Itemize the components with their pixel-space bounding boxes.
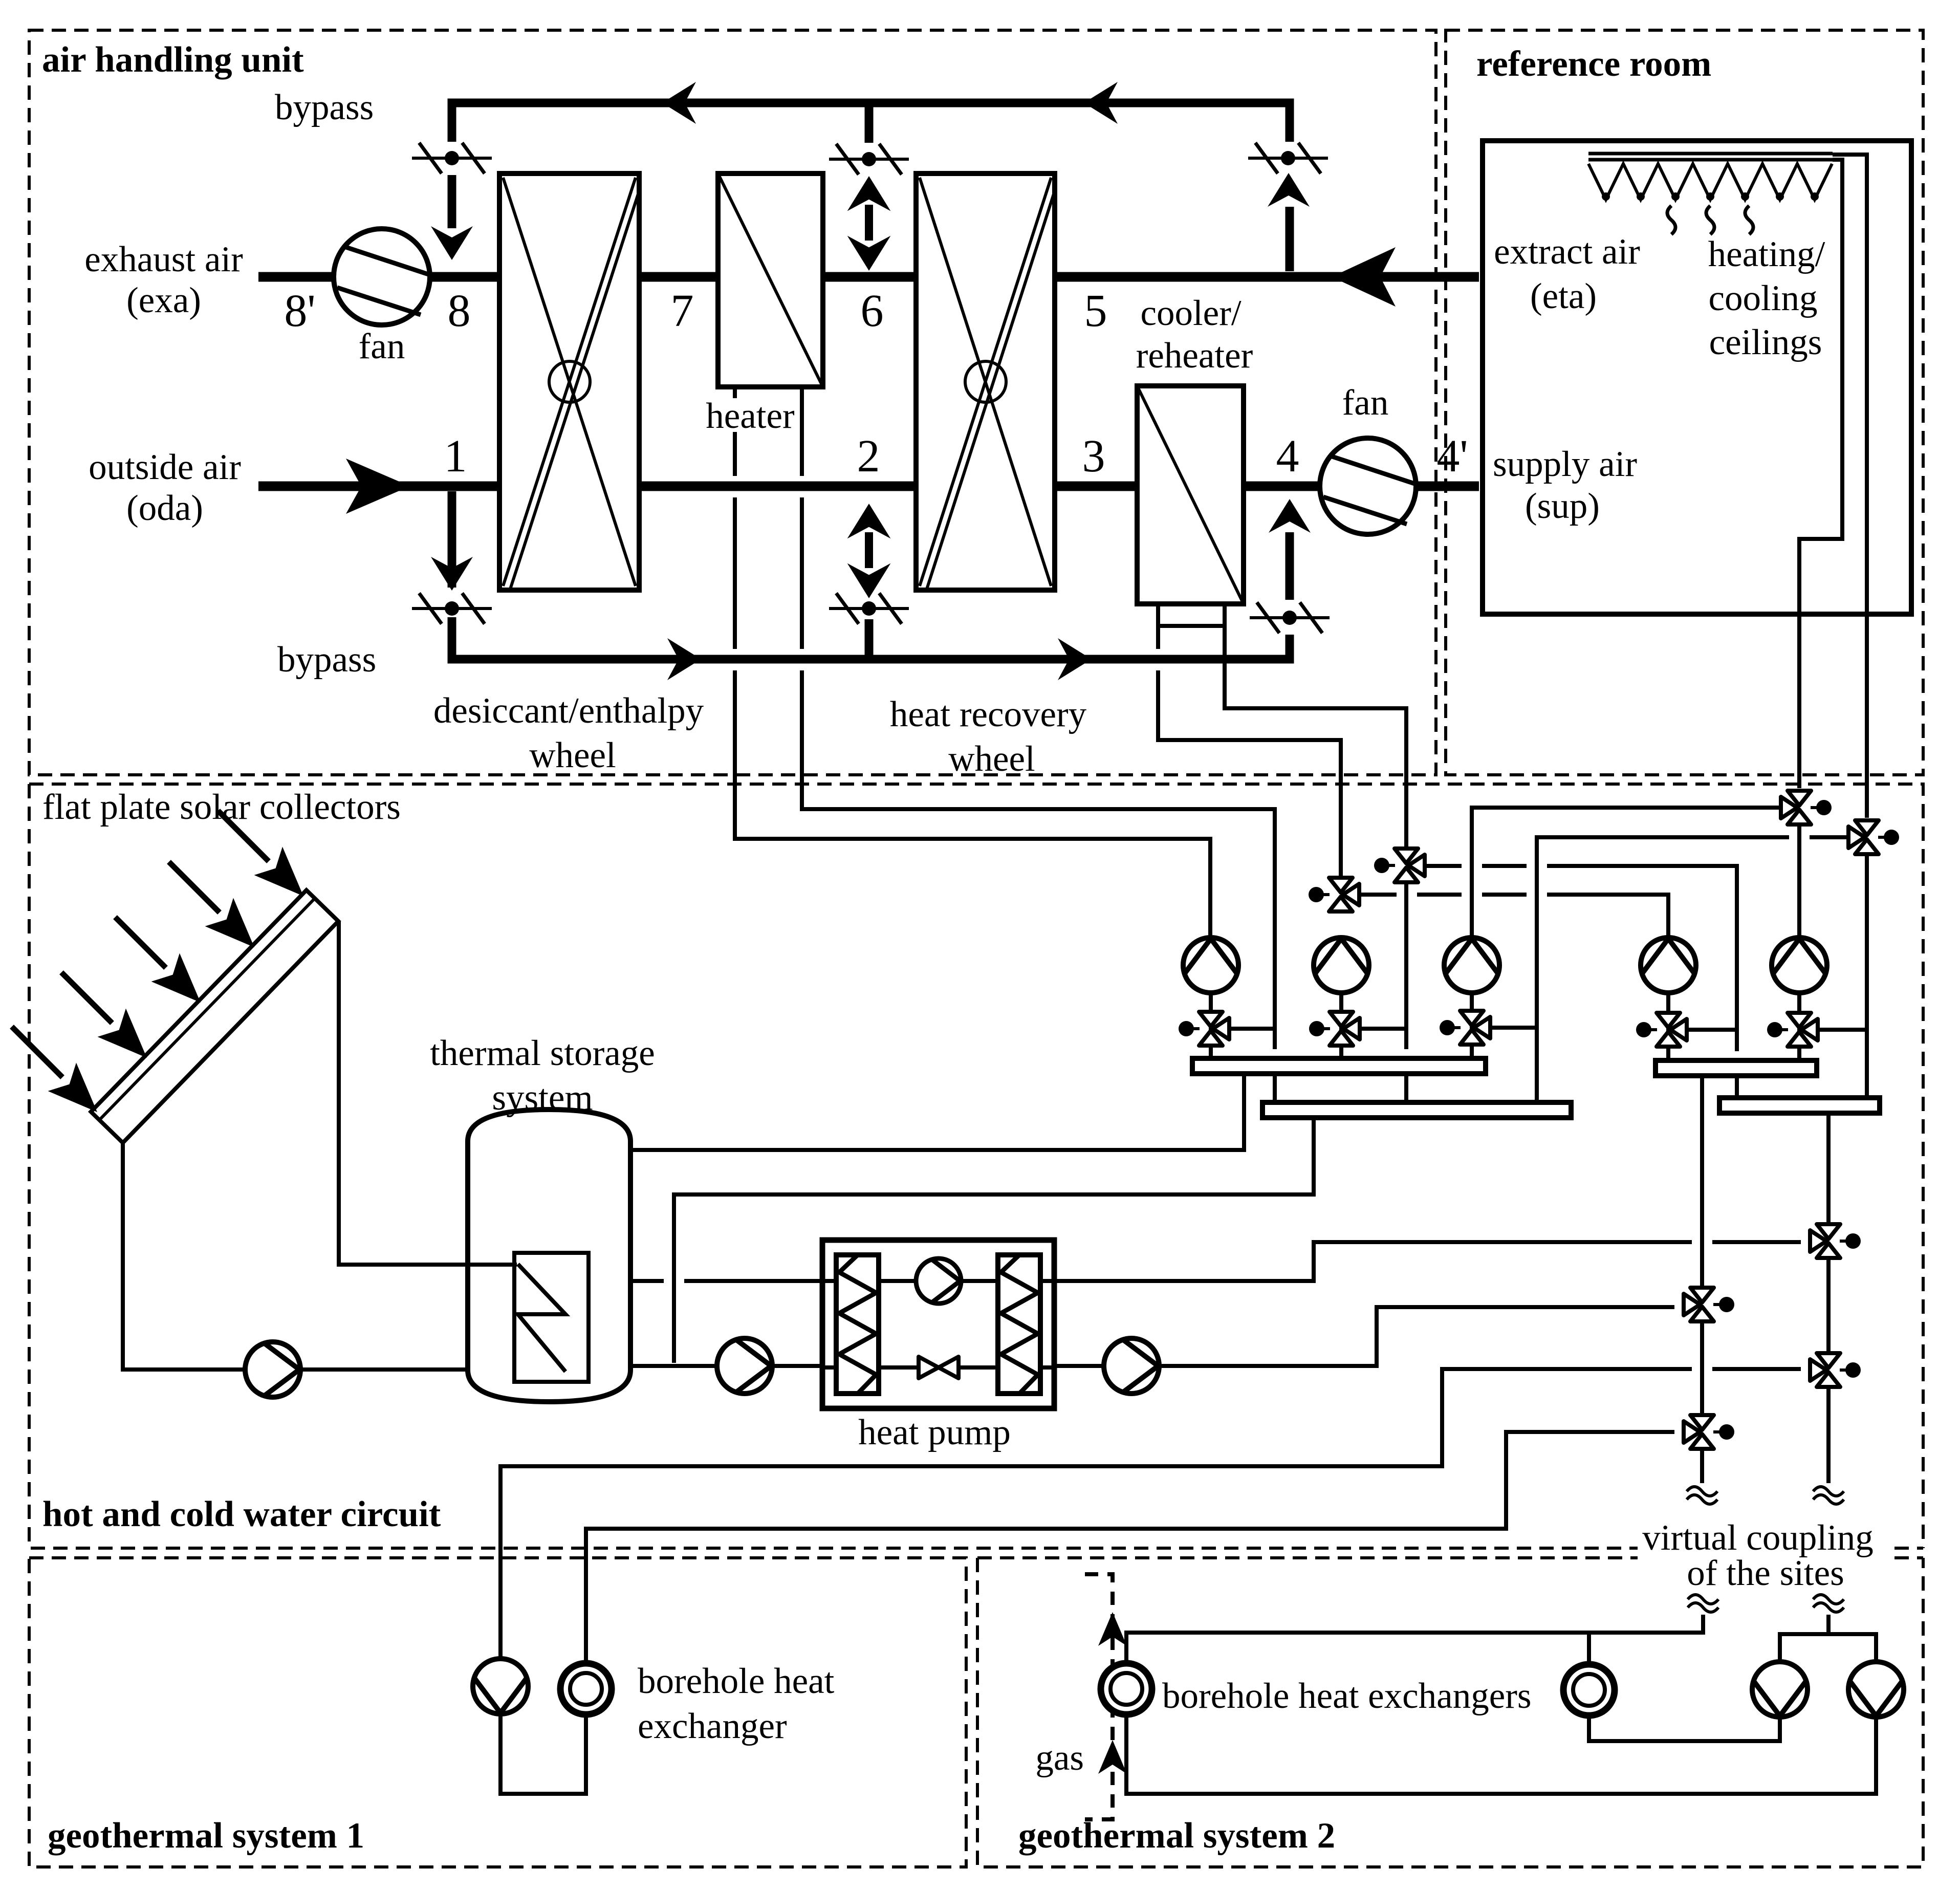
component: heat recovery wheel — [916, 173, 1055, 590]
wire: geo2 top line — [1126, 1615, 1703, 1666]
component: borehole heat exchanger (geo1) — [560, 1663, 612, 1714]
arrow: bypass rise at node 5 — [1268, 173, 1310, 207]
wire: geo2 pumps header — [1780, 1615, 1876, 1662]
pump: geo2 pump G — [1848, 1662, 1904, 1717]
svg-text:heat pump: heat pump — [858, 1413, 1011, 1452]
wire: gas supply (dashed) — [1085, 1574, 1113, 1819]
box: air handling unit (dashed border) — [29, 30, 1436, 775]
svg-text:geothermal system 2: geothermal system 2 — [1018, 1816, 1335, 1856]
wire: exhaust air duct (thick) — [258, 272, 1479, 282]
damper: bypass top right — [1248, 143, 1328, 173]
wire: room pipe V1 riser to pump E — [1797, 826, 1801, 938]
wire: tank to heat pump upper line — [631, 1242, 1801, 1281]
svg-text:gas: gas — [1035, 1738, 1084, 1778]
wire: right column to break — [1826, 1388, 1831, 1483]
wire: heater-right pipe to manifold 2 — [802, 387, 1275, 1102]
wire: pump D to valve D to manifold 3 — [1666, 993, 1670, 1060]
svg-text:exhaust air: exhaust air — [84, 240, 243, 279]
symbol: geo2 virtual break left — [1688, 1595, 1718, 1612]
pump: geo2 pump F — [1752, 1662, 1807, 1717]
wire: left column between valves — [1700, 1323, 1704, 1423]
arrow: double arrow bottom (node 2 link) — [848, 504, 890, 598]
wire: geo1 supply line A to right valve column — [500, 1369, 1801, 1659]
svg-text:cooler/: cooler/ — [1140, 293, 1241, 333]
svg-text:virtual coupling: virtual coupling — [1642, 1518, 1874, 1558]
wire: valve C side riser to valve V2 feed — [1537, 837, 1848, 1102]
pump: tank-to-heat-pump pump — [717, 1338, 772, 1394]
valve: valve C — [1440, 1011, 1490, 1045]
valve: valve E — [1767, 1013, 1818, 1047]
svg-text:(exa): (exa) — [126, 280, 201, 320]
svg-text:4': 4' — [1436, 431, 1468, 482]
wire: manifold 4 down to right valve column — [1826, 1113, 1831, 1232]
wire: heater-left pipe to pump A — [735, 387, 1210, 938]
arrow: bypass drop from outside line — [431, 557, 473, 591]
damper: bypass bottom middle — [829, 593, 909, 624]
damper: bypass bottom left — [412, 593, 492, 624]
symbol: virtual break left — [1687, 1487, 1717, 1504]
valve: left column valve lower — [1684, 1415, 1734, 1449]
wire: pump B to valve B to manifold 1 — [1339, 993, 1343, 1058]
svg-text:4: 4 — [1276, 431, 1299, 482]
pump: solar circuit pump — [245, 1342, 300, 1397]
arrow: outside air inlet — [346, 459, 410, 514]
arrow: exhaust air to room side (big left arrow) — [1332, 247, 1396, 307]
svg-text:geothermal system 1: geothermal system 1 — [48, 1816, 364, 1856]
svg-text:2: 2 — [857, 431, 880, 482]
component: heat pump right heat exchanger — [998, 1255, 1040, 1394]
svg-text:exchanger: exchanger — [638, 1706, 787, 1746]
arrow: bypass bottom flow right 2 — [1058, 638, 1092, 680]
wire: outside/supply air duct (thick) — [258, 482, 1479, 491]
wire: ceiling pipe 1 to valve V2 riser — [1833, 155, 1867, 818]
arrow: sun ray 3 — [115, 917, 200, 1002]
wire: valve C side port — [1487, 1026, 1537, 1030]
valve: valve D — [1636, 1013, 1687, 1047]
pump: pump E — [1772, 938, 1827, 993]
wire: bypass bottom (thick) — [452, 491, 1290, 659]
wire: line L5 valveBu to pump D — [1359, 895, 1668, 938]
damper: bypass bottom right — [1250, 602, 1330, 633]
svg-text:8': 8' — [284, 286, 315, 336]
wire: valve E side port — [1815, 1028, 1867, 1032]
label: heater — [703, 396, 800, 436]
damper: bypass top left — [412, 143, 492, 173]
svg-text:desiccant/enthalpy: desiccant/enthalpy — [433, 691, 704, 731]
symbol: virtual break right — [1813, 1487, 1844, 1504]
component: fan exhaust — [334, 229, 430, 325]
svg-text:extract air: extract air — [1494, 232, 1640, 272]
manifold: return manifold 4 — [1719, 1098, 1880, 1113]
component: tank internal heat exchanger — [514, 1253, 589, 1382]
svg-text:wheel: wheel — [529, 735, 616, 775]
svg-text:cooling: cooling — [1709, 278, 1818, 318]
wire: bypass mid stub top — [865, 103, 874, 143]
wire: geo2 mid link BHX2 to pump F — [1589, 1713, 1780, 1741]
svg-text:8: 8 — [448, 286, 471, 336]
symbol: geo2 virtual break right — [1813, 1595, 1844, 1612]
manifold: return manifold 2 — [1262, 1102, 1571, 1118]
svg-text:7: 7 — [671, 286, 694, 336]
arrow: gas flow up 2 — [1098, 1740, 1127, 1774]
component: desiccant/enthalpy wheel — [499, 173, 639, 590]
wire: geo2 BHX2 riser — [1587, 1633, 1591, 1666]
svg-text:fan: fan — [359, 327, 405, 366]
arrow: sun ray 2 — [61, 972, 146, 1057]
svg-text:heater: heater — [706, 396, 795, 436]
valve: V2 on room pipe — [1848, 820, 1899, 854]
valve: upper valve on cooler return riser — [1374, 849, 1425, 882]
svg-text:ceilings: ceilings — [1709, 322, 1822, 362]
svg-text:supply air: supply air — [1493, 444, 1637, 484]
svg-text:(sup): (sup) — [1525, 486, 1600, 526]
symbol: heat squiggles below ceiling — [1667, 206, 1753, 234]
svg-text:outside air: outside air — [89, 447, 241, 487]
arrow: sun ray 5 — [218, 811, 303, 896]
svg-text:wheel: wheel — [948, 739, 1035, 779]
wire: geo1 return line B to left valve column — [586, 1432, 1674, 1665]
wire: pump E to valve E to manifold 3 — [1797, 993, 1801, 1060]
svg-text:3: 3 — [1082, 431, 1105, 482]
svg-text:borehole heat: borehole heat — [638, 1661, 835, 1701]
wire: tank to manifold 1 return — [631, 1074, 1244, 1150]
valve: heat pump expansion valve — [919, 1357, 959, 1378]
box: reference room (dashed border) — [1446, 30, 1923, 775]
svg-text:5: 5 — [1084, 286, 1107, 336]
svg-text:of the sites: of the sites — [1687, 1553, 1844, 1593]
component: borehole heat exchanger 2 (geo2) — [1563, 1664, 1615, 1715]
arrow: sun ray 4 — [169, 862, 254, 947]
arrow: bypass rise into node 4 — [1269, 499, 1311, 533]
pump: heat pump outlet pump — [1104, 1338, 1159, 1394]
arrow: bypass bottom flow right 1 — [667, 638, 701, 680]
wire: geo1 bottom loop — [500, 1712, 586, 1794]
valve: V1 on room pipe — [1781, 791, 1832, 824]
component: heating/cooling ceiling panel — [1588, 154, 1833, 201]
svg-text:bypass: bypass — [277, 640, 376, 680]
wire: tank to heat pump lower line — [631, 1307, 1674, 1366]
wire: right column between valves — [1826, 1259, 1831, 1361]
component: heat pump box — [822, 1240, 1054, 1408]
svg-text:flat plate solar collectors: flat plate solar collectors — [42, 787, 401, 827]
svg-text:thermal storage: thermal storage — [430, 1033, 655, 1073]
svg-text:air handling unit: air handling unit — [42, 40, 304, 80]
box: geothermal system 1 (dashed border) — [29, 1558, 966, 1867]
wire: pump A to valve A to manifold 1 — [1209, 993, 1213, 1058]
manifold: supply manifold 1 — [1192, 1058, 1486, 1074]
valve: valve A — [1179, 1012, 1229, 1046]
manifold: supply manifold 3 — [1656, 1060, 1817, 1076]
wire: manifold 3 down to left valve column — [1700, 1076, 1704, 1295]
component: flat plate solar collector — [91, 890, 338, 1143]
wire: cooler-left pipe to valve above pump B — [1158, 604, 1341, 876]
valve: valve B — [1309, 1012, 1360, 1046]
arrow: bypass drop into exhaust at node 8 — [431, 226, 473, 260]
wire: geo2 bottom loop — [1126, 1712, 1876, 1794]
arrow: bypass top flow left 1 — [662, 82, 696, 124]
svg-text:hot and cold water circuit: hot and cold water circuit — [42, 1494, 441, 1534]
component: heat pump left heat exchanger — [836, 1255, 879, 1394]
arrow: bypass top flow left 2 — [1084, 82, 1118, 124]
wire: valve B side port — [1357, 1027, 1406, 1031]
pump: pump B — [1314, 938, 1369, 993]
wire: room pipe V2 riser down to manifold 4 — [1865, 856, 1869, 1098]
svg-text:fan: fan — [1342, 383, 1389, 423]
wire: valve D side port — [1684, 1028, 1737, 1032]
wire: ceiling pipe 2 to valve V1 riser — [1799, 160, 1842, 788]
valve: right column valve upper — [1810, 1224, 1861, 1258]
svg-text:6: 6 — [861, 286, 884, 336]
wire: collector supply pipe to tank coil — [339, 921, 517, 1265]
arrow: gas flow up 1 — [1098, 1612, 1127, 1646]
wire: pump C to valve C to manifold 1 — [1470, 993, 1474, 1058]
component: thermal storage tank — [468, 1110, 630, 1402]
wire: pump C riser to valve V1 — [1472, 808, 1781, 938]
svg-text:(eta): (eta) — [1530, 276, 1597, 316]
svg-text:1: 1 — [444, 431, 467, 482]
component: heater — [718, 173, 823, 387]
wire: left column to break — [1700, 1450, 1704, 1483]
svg-text:system: system — [492, 1078, 593, 1118]
svg-text:borehole heat exchangers: borehole heat exchangers — [1162, 1676, 1531, 1716]
damper: bypass top middle — [829, 144, 909, 175]
svg-text:reference room: reference room — [1476, 44, 1711, 84]
pump: pump A — [1183, 938, 1238, 993]
wire: heat pump internal lower — [822, 1365, 1054, 1370]
pump: pump C — [1444, 938, 1499, 993]
wire: manifold 2 to tank via step — [674, 1118, 1314, 1363]
box: hot and cold water circuit (dashed border, bottom gap for text) — [29, 784, 1923, 1548]
arrow: double arrow top (node 6 link) — [848, 177, 890, 270]
wire: line L3 valveCu to valve D riser — [1425, 866, 1737, 1098]
arrow: sun ray 1 — [12, 1027, 97, 1112]
svg-text:bypass: bypass — [275, 88, 374, 127]
valve: right column valve lower — [1810, 1353, 1861, 1387]
wire: valve A side port — [1226, 1027, 1275, 1031]
valve: left column valve upper — [1684, 1288, 1734, 1321]
wire: bypass top (thick) — [452, 103, 1290, 271]
svg-text:heat recovery: heat recovery — [890, 694, 1087, 734]
svg-text:heating/: heating/ — [1708, 234, 1825, 274]
component: cooler/reheater — [1137, 386, 1244, 626]
wire: cooler-right pipe via upper valve C to manifold 2 — [1225, 604, 1406, 1102]
component: borehole heat exchanger 1 (geo2) — [1101, 1663, 1152, 1714]
component: fan supply — [1320, 438, 1416, 534]
component: reference room walls — [1483, 141, 1911, 614]
wire: bypass mid stub bottom — [865, 619, 874, 659]
box: geothermal system 2 (dashed border, top gap for text) — [977, 1558, 1923, 1867]
wire: collector return pipe via solar pump — [123, 1144, 468, 1370]
svg-text:(oda): (oda) — [126, 488, 203, 528]
pump: heat pump compressor — [916, 1258, 961, 1304]
valve: upper valve on pump B riser — [1309, 878, 1359, 911]
pump: pump D — [1641, 938, 1696, 993]
wire: heat pump internal upper — [822, 1279, 1054, 1283]
svg-text:reheater: reheater — [1136, 336, 1253, 376]
pump: geothermal system 1 pump — [473, 1659, 528, 1714]
